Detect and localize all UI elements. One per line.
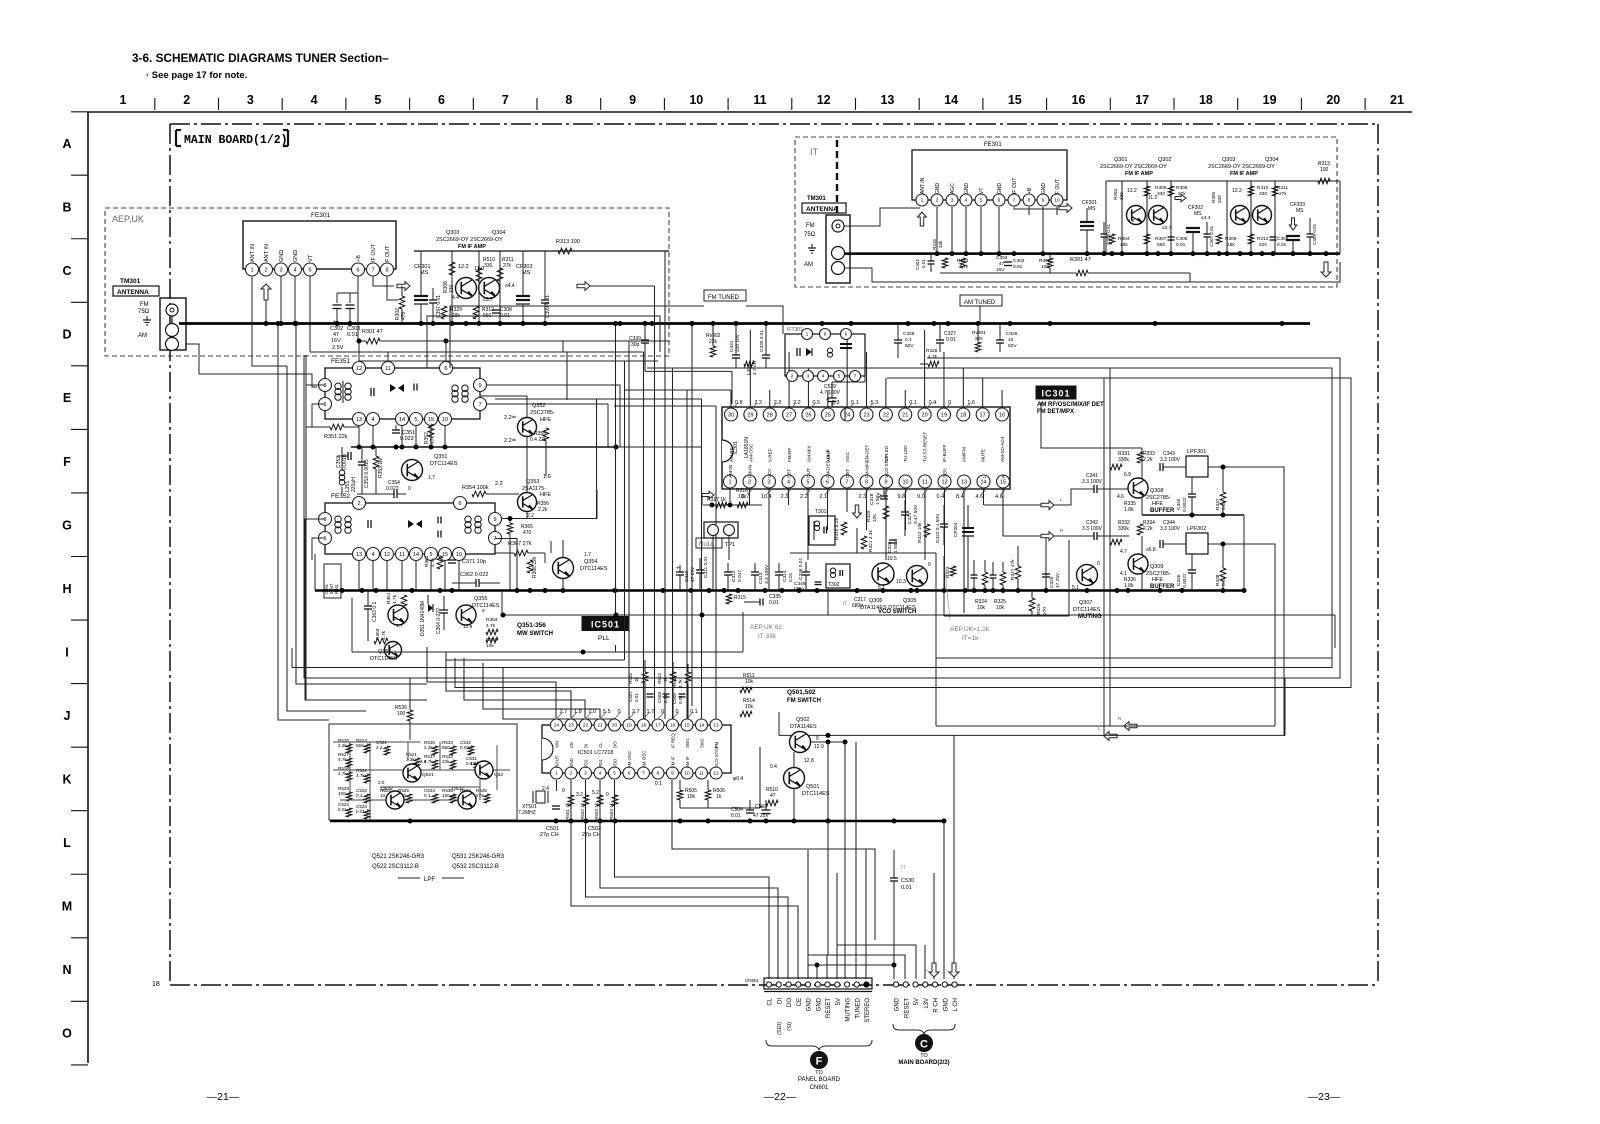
svg-text:FM-DET: FM-DET — [865, 444, 870, 462]
capacitor C302 — [336, 293, 338, 303]
svg-text:4.7k: 4.7k — [338, 757, 347, 762]
label LPF — [398, 877, 420, 879]
svg-text:R309: R309 — [1225, 236, 1237, 242]
svg-text:CL: CL — [768, 997, 774, 1005]
top ruler column numbers 1-21 — [120, 93, 1404, 110]
horizontal feeds to vertical bus — [388, 321, 732, 406]
transistor Q309 — [1128, 554, 1148, 574]
connector CN501 pin labels — [768, 997, 872, 1035]
svg-text:+B: +B — [1027, 187, 1033, 194]
svg-text:R328: R328 — [926, 348, 938, 354]
svg-text:IF-BUFF: IF-BUFF — [942, 444, 947, 462]
svg-text:0: 0 — [1097, 561, 1100, 567]
svg-text:47: 47 — [999, 261, 1005, 267]
svg-text:R CH: R CH — [934, 998, 940, 1013]
svg-text:VCO SWITCH: VCO SWITCH — [878, 609, 916, 615]
svg-text:AM-MIX: AM-MIX — [806, 445, 811, 462]
svg-text:20: 20 — [922, 412, 928, 418]
svg-text:1: 1 — [921, 198, 924, 204]
svg-text:1k: 1k — [716, 794, 722, 800]
IT bus pin drops — [937, 207, 1043, 254]
IC301 top pins 30-16 — [725, 408, 1009, 421]
svg-text:7: 7 — [845, 479, 848, 485]
svg-text:R361: R361 — [334, 583, 339, 594]
svg-text:VCO-STOP: VCO-STOP — [884, 454, 889, 478]
capacitor C303 — [349, 293, 351, 303]
wire AM antenna down — [185, 344, 317, 387]
svg-text:330k: 330k — [1118, 457, 1129, 463]
wire FE301 pin3 down — [280, 276, 282, 324]
svg-text:3.3 100V: 3.3 100V — [1160, 526, 1181, 532]
svg-text:0.1: 0.1 — [905, 337, 912, 343]
svg-text:R501 1k: R501 1k — [565, 802, 570, 820]
svg-text:Q522: Q522 — [381, 786, 393, 792]
wire y652 horizontal — [352, 651, 743, 653]
svg-text:22k: 22k — [975, 336, 983, 342]
wire Q501 connections — [793, 752, 795, 768]
IC501 bottom pin labels — [555, 733, 720, 748]
svg-text:3.2: 3.2 — [576, 792, 583, 798]
svg-text:Q303: Q303 — [1222, 157, 1235, 163]
svg-text:10: 10 — [456, 552, 462, 558]
svg-text:R512: R512 — [672, 677, 677, 688]
wire R return arrow — [1124, 722, 1137, 731]
svg-text:Rv301: Rv301 — [972, 330, 986, 336]
svg-text:Q304: Q304 — [492, 230, 505, 236]
svg-text:Q521 2SK246-GR3: Q521 2SK246-GR3 — [372, 854, 425, 860]
svg-text:3: 3 — [323, 383, 326, 389]
crystal XT501 — [536, 791, 545, 803]
svg-text:GND: GND — [997, 183, 1003, 195]
svg-text:TM301: TM301 — [807, 196, 826, 202]
svg-text:7: 7 — [502, 93, 509, 107]
svg-text:560: 560 — [1157, 242, 1165, 248]
svg-text:24: 24 — [554, 723, 560, 729]
right connector pins — [893, 982, 957, 987]
svg-text:330: 330 — [1157, 191, 1165, 197]
svg-text:8: 8 — [865, 479, 868, 485]
svg-text:HFE: HFE — [540, 492, 551, 498]
svg-text:FM SWITCH: FM SWITCH — [787, 698, 821, 704]
svg-text:R513: R513 — [657, 673, 662, 684]
wire loop E — [936, 657, 1332, 659]
main antenna bus wire — [179, 322, 1310, 325]
FE351 top pins — [353, 362, 366, 375]
wire buffer top feed — [1041, 402, 1142, 448]
svg-text:3-6. SCHEMATIC DIAGRAMS TUNER: 3-6. SCHEMATIC DIAGRAMS TUNER Section– — [132, 51, 389, 65]
svg-text:50V: 50V — [1008, 343, 1017, 349]
svg-text:0.01: 0.01 — [901, 885, 912, 891]
wire FE301 pin5 VT down — [309, 276, 311, 352]
svg-text:C336 0.01: C336 0.01 — [798, 558, 804, 580]
svg-text:Q354: Q354 — [584, 559, 597, 565]
svg-text:N: N — [62, 963, 71, 977]
wire left drop x278 — [278, 324, 329, 721]
svg-text:R368 22k: R368 22k — [532, 556, 538, 578]
svg-text:3: 3 — [767, 479, 770, 485]
IFT301 pins — [802, 329, 813, 340]
wire IT AM out — [844, 268, 989, 282]
connector CN501 pins — [766, 982, 869, 987]
svg-text:Q355: Q355 — [474, 596, 487, 602]
svg-text:AM: AM — [804, 262, 813, 268]
svg-text:R312: R312 — [1257, 236, 1269, 242]
arrow R input — [1041, 532, 1054, 541]
svg-text:50V: 50V — [905, 343, 914, 349]
transistor Q354 — [553, 558, 574, 579]
svg-text:IC501: IC501 — [591, 620, 620, 630]
svg-text:R502 1k: R502 1k — [580, 802, 585, 820]
svg-text:12.9: 12.9 — [463, 624, 473, 630]
svg-text:2SC2669-OY 2SC2669-OY: 2SC2669-OY 2SC2669-OY — [1100, 164, 1167, 170]
svg-text:2SC2669-OY 2SC2669-OY: 2SC2669-OY 2SC2669-OY — [1208, 164, 1275, 170]
svg-text:4.4: 4.4 — [1128, 218, 1135, 224]
svg-text:R303: R303 — [1113, 189, 1118, 200]
svg-text:10: 10 — [902, 479, 908, 485]
wire fe351 left feeds — [305, 355, 307, 427]
svg-text:≤4.4: ≤4.4 — [1201, 215, 1211, 221]
svg-text:FM: FM — [714, 741, 719, 748]
svg-text:FM-MFC: FM-MFC — [865, 459, 870, 478]
svg-text:≤3.7: ≤3.7 — [1162, 225, 1172, 231]
svg-text:R353 1M: R353 1M — [378, 458, 384, 478]
wire FE351 right feeds — [487, 385, 620, 447]
svg-text:D: D — [62, 328, 71, 342]
arrow up at FE301 pin2 — [261, 284, 271, 300]
svg-text:13V: 13V — [924, 998, 930, 1009]
svg-text:I: I — [65, 645, 68, 659]
svg-text:25: 25 — [825, 412, 831, 418]
wire vertical x1110 — [1109, 368, 1111, 726]
svg-text:K: K — [62, 773, 71, 787]
muting box lines — [944, 615, 1069, 617]
wire TP1 leads — [712, 536, 714, 591]
svg-text:1 50V: 1 50V — [875, 492, 881, 505]
svg-text:ANTENNA: ANTENNA — [806, 206, 838, 213]
svg-text:4.7k: 4.7k — [430, 557, 436, 567]
svg-text:0.047: 0.047 — [737, 570, 743, 582]
svg-text:AEP,UK: AEP,UK — [112, 214, 144, 224]
svg-text:R361: R361 — [386, 592, 392, 604]
svg-text:2.2k: 2.2k — [1143, 526, 1153, 532]
wire fe352 to Q354 — [502, 518, 597, 520]
svg-text:≤4.4: ≤4.4 — [505, 283, 515, 289]
svg-text:2.2: 2.2 — [376, 745, 383, 750]
svg-text:2: 2 — [264, 267, 267, 273]
AEP UK region box — [105, 208, 669, 356]
svg-text:Q308: Q308 — [1150, 488, 1163, 494]
svg-text:DET: DET — [787, 469, 792, 478]
svg-text:Q53: Q53 — [494, 772, 503, 778]
svg-text:3.3 100V: 3.3 100V — [1160, 457, 1181, 463]
svg-text:4.7k: 4.7k — [928, 354, 938, 360]
svg-text:OUT: OUT — [806, 468, 811, 478]
FE352 top pins — [353, 497, 366, 510]
svg-text:2.2k: 2.2k — [338, 743, 347, 748]
svg-text:27k: 27k — [503, 263, 512, 269]
transistor Q531 — [475, 761, 493, 779]
svg-text:7: 7 — [1013, 198, 1016, 204]
svg-text:20: 20 — [612, 723, 618, 729]
svg-text:12.2: 12.2 — [1127, 188, 1137, 194]
svg-text:AM-SD-ADJ: AM-SD-ADJ — [1000, 437, 1005, 462]
FE351 inner coils — [335, 383, 341, 389]
svg-text:R301 47: R301 47 — [1070, 257, 1091, 263]
main board label — [176, 130, 288, 147]
svg-text:R313 100: R313 100 — [556, 239, 580, 245]
svg-text:R367 27k: R367 27k — [508, 541, 532, 547]
svg-text:Q532: Q532 — [452, 786, 464, 792]
wire IC301 pin1 column — [701, 495, 703, 505]
IC301 bottom pin annotations — [742, 488, 1008, 500]
arrow IF out — [397, 282, 410, 291]
IT antenna ground symbol — [808, 247, 816, 249]
svg-text:10: 10 — [689, 93, 703, 107]
svg-text:4: 4 — [311, 93, 318, 107]
svg-text:STEREO: STEREO — [865, 998, 871, 1023]
svg-text:SW1: SW1 — [685, 738, 690, 748]
svg-text:5.2: 5.2 — [592, 790, 599, 796]
svg-text:AM OSC: AM OSC — [642, 751, 647, 768]
IT region box — [795, 137, 1337, 287]
wire Q352 collector — [526, 396, 528, 417]
FE352 bottom pins — [353, 548, 466, 561]
svg-text:2: 2 — [357, 501, 360, 507]
svg-text:C363 0.1: C363 0.1 — [372, 601, 378, 622]
IT resistor R313 zigzag — [1318, 178, 1330, 184]
svg-text:F: F — [816, 1056, 823, 1068]
transistor Q304 — [479, 278, 500, 299]
svg-text:GND: GND — [293, 250, 299, 262]
svg-text:R321 3.3k: R321 3.3k — [868, 530, 874, 552]
PLL filter box — [329, 724, 517, 820]
svg-text:XIN: XIN — [555, 741, 560, 748]
svg-text:0.01: 0.01 — [769, 600, 779, 606]
FE351 left pins — [319, 379, 332, 392]
left ruler row letters A-O — [62, 112, 88, 1065]
svg-text:9: 9 — [493, 517, 496, 523]
svg-text:R307: R307 — [1155, 236, 1167, 242]
svg-text:10k: 10k — [486, 643, 494, 649]
svg-text:2.2: 2.2 — [495, 481, 503, 487]
svg-text:0.01: 0.01 — [921, 259, 926, 268]
wire LPF301 bottom rail — [1142, 514, 1244, 516]
svg-text:20: 20 — [1326, 93, 1340, 107]
svg-text:C306: C306 — [1176, 236, 1188, 242]
svg-text:21: 21 — [1390, 93, 1404, 107]
svg-text:ANTENNA: ANTENNA — [117, 289, 149, 296]
svg-text:+: + — [826, 398, 830, 404]
svg-text:14: 14 — [944, 93, 958, 107]
svg-text:0: 0 — [562, 788, 565, 794]
FE351 right pins — [474, 379, 487, 392]
svg-text:BUFFER: BUFFER — [1150, 584, 1175, 590]
svg-text:+: + — [676, 566, 680, 572]
svg-text:14: 14 — [413, 552, 419, 558]
svg-text:2.3: 2.3 — [781, 494, 789, 500]
wire loop A — [304, 355, 1340, 678]
svg-text:100: 100 — [338, 791, 346, 796]
svg-text:FM IF: FM IF — [671, 756, 676, 768]
svg-text:9: 9 — [1042, 198, 1045, 204]
svg-text:4.7k: 4.7k — [678, 679, 683, 688]
svg-text:C302: C302 — [996, 255, 1008, 261]
svg-text:27k: 27k — [1279, 191, 1287, 197]
PLL box inner wires — [333, 741, 420, 743]
svg-text:DTC114ES: DTC114ES — [802, 791, 830, 797]
svg-text:R503 1k: R503 1k — [594, 802, 599, 820]
svg-text:19: 19 — [941, 412, 947, 418]
wires to CN501 middle pins — [808, 849, 866, 979]
svg-text:MUTE: MUTE — [981, 449, 986, 462]
IT bus dots — [935, 251, 1329, 256]
svg-text:C509: C509 — [657, 692, 662, 703]
bus junction dots — [264, 321, 1285, 326]
svg-text:13: 13 — [880, 93, 894, 107]
svg-text:15: 15 — [684, 723, 690, 729]
svg-text:LA1851N: LA1851N — [744, 437, 750, 458]
svg-text:FM: FM — [806, 223, 815, 229]
wire G row 553 — [790, 552, 936, 554]
svg-text:GND: GND — [895, 997, 901, 1011]
transistor Q307 muting — [1077, 565, 1098, 586]
svg-text:12.2: 12.2 — [458, 264, 469, 270]
transistor Q306 — [872, 563, 894, 585]
svg-text:C331: C331 — [729, 340, 735, 352]
svg-text:R504 1k: R504 1k — [609, 802, 614, 820]
svg-text:10k: 10k — [745, 679, 754, 685]
svg-text:15: 15 — [428, 417, 434, 423]
svg-text:TP1: TP1 — [725, 542, 735, 548]
svg-text:330: 330 — [449, 284, 455, 293]
svg-text:2.2: 2.2 — [800, 494, 808, 500]
transistor Q361 switch — [388, 605, 408, 625]
svg-text:13: 13 — [356, 552, 362, 558]
svg-text:2.2k: 2.2k — [1143, 457, 1153, 463]
svg-text:C530: C530 — [901, 878, 914, 884]
wire bus join verticals — [844, 407, 846, 421]
svg-text:0.01: 0.01 — [356, 809, 365, 814]
svg-text:6: 6 — [458, 501, 461, 507]
wire L301 row — [736, 367, 766, 369]
IC301 bottom pin labels — [728, 449, 1006, 478]
svg-text:9: 9 — [671, 771, 674, 777]
svg-text:C364 0.022: C364 0.022 — [436, 608, 442, 634]
FE351 block — [325, 368, 480, 419]
IC501 bottom pins 1-12 — [551, 767, 723, 779]
svg-text:GND: GND — [816, 997, 822, 1011]
svg-text:2.3: 2.3 — [859, 494, 867, 500]
FE301 block — [243, 221, 396, 269]
svg-text:1: 1 — [120, 93, 127, 107]
svg-text:330: 330 — [1119, 192, 1124, 200]
svg-text:AM TUNED: AM TUNED — [964, 300, 996, 306]
svg-text:0.01: 0.01 — [634, 693, 639, 702]
svg-text:C330 0.01: C330 0.01 — [759, 330, 765, 352]
svg-text:FM-DET-OUT: FM-DET-OUT — [826, 449, 831, 478]
svg-text:19: 19 — [1263, 93, 1277, 107]
svg-text:1: 1 — [323, 536, 326, 542]
IT top rail — [1106, 180, 1340, 182]
svg-text:270: 270 — [1042, 607, 1048, 615]
svg-text:R310: R310 — [1257, 185, 1269, 191]
svg-text:+: + — [760, 805, 764, 811]
svg-text:Q306: Q306 — [869, 598, 882, 604]
IC301 name label — [1036, 386, 1076, 399]
FE352 bottom pin stubs — [359, 561, 459, 591]
svg-text:1.7: 1.7 — [584, 552, 591, 558]
svg-text:4: 4 — [599, 771, 602, 777]
svg-text:GND: GND — [935, 183, 941, 195]
svg-text:75Ω: 75Ω — [138, 309, 150, 315]
svg-text:0.01: 0.01 — [1176, 242, 1186, 248]
main board border right — [1377, 124, 1379, 985]
svg-text:G: G — [62, 518, 72, 532]
svg-text:2: 2 — [570, 771, 573, 777]
main board border bottom — [170, 984, 1378, 986]
svg-text:2: 2 — [748, 479, 751, 485]
svg-text:12.8: 12.8 — [804, 758, 814, 764]
svg-text:MAIN BOARD(2/2): MAIN BOARD(2/2) — [898, 1060, 949, 1066]
svg-text:VCC: VCC — [767, 468, 772, 478]
FE352 left pins — [319, 513, 332, 526]
svg-text:AM/FM: AM/FM — [961, 447, 966, 462]
svg-text:DTC114ES: DTC114ES — [580, 566, 608, 572]
svg-text:1.6: 1.6 — [543, 474, 551, 480]
svg-text:PLL: PLL — [598, 635, 610, 642]
svg-text:VT: VT — [308, 254, 314, 262]
IC301 body — [722, 407, 1010, 489]
svg-text:IFT301: IFT301 — [787, 327, 803, 333]
wire horiz y955 left — [808, 954, 827, 956]
svg-text:AM IF: AM IF — [685, 756, 690, 768]
svg-text:330: 330 — [1259, 191, 1267, 197]
svg-text:5.1: 5.1 — [1072, 585, 1079, 591]
wire top rail drop x1340 — [1339, 181, 1341, 254]
svg-text:16: 16 — [670, 723, 676, 729]
svg-text:2.2k: 2.2k — [424, 745, 433, 750]
flag F to panel board — [810, 1051, 828, 1069]
svg-text:10: 10 — [1054, 198, 1060, 204]
svg-text:2SC2785-: 2SC2785- — [530, 410, 555, 416]
svg-text:3.3k: 3.3k — [406, 757, 415, 762]
svg-text:9: 9 — [629, 93, 636, 107]
svg-text:13: 13 — [713, 723, 719, 729]
svg-text:18: 18 — [641, 723, 647, 729]
svg-text:ANT IN: ANT IN — [920, 177, 926, 194]
svg-text:18k: 18k — [1120, 242, 1128, 248]
svg-text:DTA114ES: DTA114ES — [790, 724, 817, 730]
svg-text:12: 12 — [384, 552, 390, 558]
svg-text:FE352: FE352 — [331, 493, 351, 500]
svg-text:0.01: 0.01 — [1277, 242, 1287, 248]
svg-text:22k: 22k — [442, 759, 450, 764]
IT main bus — [844, 252, 1340, 255]
wire loop B — [455, 378, 1351, 688]
svg-text:0.01: 0.01 — [663, 694, 668, 703]
svg-text:220μH: 220μH — [351, 477, 357, 492]
svg-text:C303: C303 — [1013, 258, 1025, 264]
svg-text:≤6.8: ≤6.8 — [1146, 547, 1156, 553]
svg-text:11: 11 — [399, 552, 405, 558]
svg-text:27p CH: 27p CH — [540, 832, 559, 838]
svg-text:2.9: 2.9 — [450, 794, 457, 799]
arrow down G row — [853, 505, 862, 518]
svg-text:0: 0 — [816, 736, 819, 742]
IC501 top pin labels — [555, 745, 720, 768]
svg-text:ANT IN: ANT IN — [264, 244, 270, 262]
svg-text:GND: GND — [279, 250, 285, 262]
